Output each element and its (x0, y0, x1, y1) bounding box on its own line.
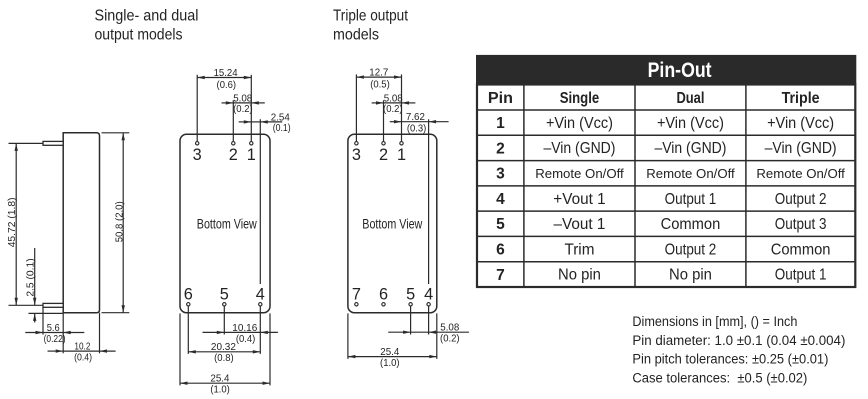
pinout table: grid (477, 85, 855, 288)
extension line: case left edge vertical (62, 313, 64, 354)
svg-text:Dimensions in [mm], () = Inch: Dimensions in [mm], () = Inch (632, 314, 797, 330)
dimension 15.24 (0.6) (197, 68, 251, 91)
svg-text:5.08: 5.08 (233, 93, 252, 104)
svg-text:Pin-Out: Pin-Out (648, 59, 712, 82)
dimension 7.62 (0.3) (390, 112, 449, 135)
dimension 50.8 (2.0) case height (114, 133, 125, 313)
extension line: case bottom right (102, 312, 130, 314)
svg-text:No pin: No pin (669, 267, 712, 284)
svg-text:2: 2 (229, 146, 238, 164)
svg-text:Remote On/Off: Remote On/Off (756, 166, 845, 181)
svg-text:2.54: 2.54 (271, 112, 290, 123)
dimension 12.7 (0.5) (356, 68, 401, 91)
svg-text:Bottom View: Bottom View (197, 216, 258, 232)
svg-text:5.08: 5.08 (384, 93, 403, 104)
label: single and dual output models (95, 8, 199, 44)
extension line: pin 5 down (223, 306, 225, 334)
svg-text:(1.0): (1.0) (210, 385, 230, 396)
dimension 5.08 (0.2) triple bottom (388, 323, 469, 345)
svg-text:–Vin (GND): –Vin (GND) (543, 140, 615, 157)
pin 5 (bottom view 1) (220, 285, 229, 306)
bottom view 2: module body (348, 134, 437, 312)
pin 1 (bottom view 1) (247, 142, 256, 164)
svg-text:1: 1 (397, 146, 406, 164)
extension line: body left down (triple) (347, 313, 349, 359)
extension line: body left down (179, 313, 181, 385)
svg-text:Trim: Trim (564, 241, 594, 258)
svg-text:(0.5): (0.5) (370, 80, 390, 91)
svg-text:25.4: 25.4 (210, 374, 229, 385)
extension line: pin 5 down (triple) (410, 306, 412, 334)
svg-text:6: 6 (496, 241, 505, 258)
side view: top pin (43, 141, 63, 145)
svg-text:(0.2): (0.2) (383, 104, 403, 115)
svg-text:1: 1 (247, 146, 256, 164)
extension line: top pin centerline (9, 142, 44, 144)
extension line: pin 3 up (triple) (355, 74, 357, 141)
svg-text:5: 5 (406, 285, 415, 303)
svg-text:1: 1 (496, 115, 505, 132)
svg-text:(0.4): (0.4) (236, 334, 256, 345)
pin 6 (bottom view 2) (379, 285, 388, 306)
svg-text:Remote On/Off: Remote On/Off (535, 166, 624, 181)
svg-text:–Vin (GND): –Vin (GND) (654, 140, 726, 157)
dimension 10.2 (0.4) case depth (48, 341, 116, 363)
pin 3 (bottom view 1) (193, 142, 202, 164)
extension line: pin 2 up (triple) (383, 100, 385, 141)
svg-text:7: 7 (496, 267, 505, 284)
svg-text:Single: Single (560, 90, 600, 107)
side view: bottom pin (43, 303, 63, 307)
dimension 2.54 (0.1) (239, 112, 291, 134)
dimension 5.6 (0.22) pin length (25, 323, 84, 345)
svg-text:12.7: 12.7 (369, 68, 388, 79)
extension line: case bottom left (29, 312, 64, 314)
pinout table: row 2 (496, 140, 836, 157)
dimension 5.08 (0.2) (222, 93, 265, 115)
svg-text:Output 1: Output 1 (775, 267, 827, 284)
svg-text:No pin: No pin (558, 267, 601, 284)
svg-text:(0.1): (0.1) (273, 123, 291, 134)
side view: module body (63, 133, 99, 313)
extension line: case top right (102, 132, 130, 134)
extension line: bottom pin centerline (9, 304, 44, 306)
svg-text:–Vin (GND): –Vin (GND) (765, 140, 837, 157)
extension line: pin 1 up (250, 75, 252, 141)
bottom view 2: label (362, 216, 423, 232)
svg-text:3: 3 (193, 146, 202, 164)
extension line: pin 6 down (187, 306, 189, 354)
label: triple output models (333, 8, 409, 44)
extension line: pin 3 up (196, 75, 198, 141)
dimension 20.32 (0.8) (188, 342, 260, 364)
pinout table: header band (476, 55, 856, 85)
extension line: pin 2 up (232, 100, 234, 141)
svg-text:7.62: 7.62 (406, 112, 425, 123)
svg-text:Triple output: Triple output (333, 8, 409, 25)
svg-text:(0.3): (0.3) (407, 124, 427, 135)
pin 6 (bottom view 1) (184, 285, 193, 306)
svg-text:5: 5 (496, 216, 505, 233)
svg-text:45.72 (1.8): 45.72 (1.8) (7, 197, 18, 247)
pin 7 (bottom view 2) (352, 285, 361, 306)
svg-text:–Vout 1: –Vout 1 (554, 216, 606, 233)
pin 4 (bottom view 1) (256, 285, 265, 306)
dimension 25.4 (1.0) width (180, 374, 270, 396)
svg-text:(0.2): (0.2) (233, 104, 253, 115)
svg-text:Bottom View: Bottom View (362, 216, 423, 232)
svg-text:2: 2 (496, 140, 505, 157)
svg-text:Pin pitch tolerances: ±0.25 (±: Pin pitch tolerances: ±0.25 (±0.01) (632, 352, 828, 368)
extension line: pin 1 up (triple) (401, 74, 403, 141)
svg-text:(0.8): (0.8) (214, 353, 234, 364)
pinout table: row 5 (496, 216, 826, 233)
svg-text:Dual: Dual (676, 90, 704, 107)
svg-text:output models: output models (95, 26, 183, 43)
svg-text:models: models (333, 26, 379, 43)
svg-text:Case tolerances: ±0.5 (±0.02): Case tolerances: ±0.5 (±0.02) (632, 370, 807, 386)
pin 3 (bottom view 2) (352, 142, 361, 164)
pin 2 (bottom view 1) (229, 142, 238, 164)
svg-text:Pin: Pin (488, 90, 513, 107)
svg-text:+Vin (Vcc): +Vin (Vcc) (767, 115, 834, 132)
notes: dimension conventions (632, 314, 845, 386)
dimension 2.5 (0.1) pin to case bottom (26, 248, 37, 323)
svg-text:25.4: 25.4 (380, 347, 399, 358)
svg-text:3: 3 (496, 166, 505, 183)
svg-text:Common: Common (661, 216, 721, 233)
pin 2 (bottom view 2) (379, 142, 388, 164)
extension line: body right down (triple) (436, 313, 438, 359)
svg-text:Common: Common (771, 241, 831, 258)
extension line: pin tip vertical (42, 307, 44, 334)
extension line: pin 4 down (259, 306, 261, 354)
svg-text:10.2: 10.2 (74, 341, 90, 352)
bottom view 1: module body (180, 134, 270, 312)
bottom view 1: label (197, 216, 258, 232)
svg-text:5: 5 (220, 285, 229, 303)
svg-text:+Vin (Vcc): +Vin (Vcc) (546, 115, 613, 132)
extension line: pin 4 down (triple) (428, 306, 430, 334)
pin 4 (bottom view 2) (424, 285, 433, 306)
svg-text:(0.22): (0.22) (44, 334, 66, 345)
svg-text:Remote On/Off: Remote On/Off (646, 166, 735, 181)
svg-text:2: 2 (379, 146, 388, 164)
extension line: pin 4 up through body (259, 119, 261, 284)
dimension 5.08 (0.2) triple top (372, 93, 416, 115)
svg-text:Pin diameter: 1.0 ±0.1 (0.04 ±: Pin diameter: 1.0 ±0.1 (0.04 ±0.004) (632, 333, 845, 349)
pinout table: row 7 (496, 267, 826, 284)
svg-text:+Vin (Vcc): +Vin (Vcc) (657, 115, 724, 132)
svg-text:3: 3 (352, 146, 361, 164)
pin 5 (bottom view 2) (406, 285, 415, 306)
svg-text:Output 3: Output 3 (775, 216, 827, 233)
svg-text:4: 4 (424, 285, 433, 303)
svg-text:10.16: 10.16 (232, 323, 257, 334)
svg-text:2.5 (0.1): 2.5 (0.1) (26, 258, 37, 296)
svg-text:7: 7 (352, 285, 361, 303)
svg-text:Single- and dual: Single- and dual (95, 8, 199, 25)
svg-text:6: 6 (379, 285, 388, 303)
svg-text:Output 1: Output 1 (665, 191, 717, 208)
extension line: pin 4 up through body (triple) (428, 119, 430, 284)
pin 1 (bottom view 2) (397, 142, 406, 164)
pinout table: row 4 (496, 191, 826, 208)
svg-text:(1.0): (1.0) (380, 358, 400, 369)
svg-text:Output 2: Output 2 (775, 191, 827, 208)
svg-text:4: 4 (256, 285, 265, 303)
dimension 45.72 (1.8) pin span (7, 143, 18, 305)
pinout table: column headers (488, 90, 820, 107)
svg-text:6: 6 (184, 285, 193, 303)
extension line: case right edge vertical (99, 313, 101, 354)
dimension 25.4 (1.0) width (triple) (348, 347, 437, 369)
svg-text:+Vout 1: +Vout 1 (553, 191, 605, 208)
svg-text:50.8 (2.0): 50.8 (2.0) (114, 201, 125, 242)
pinout table: row 6 (496, 241, 830, 258)
svg-text:Output 2: Output 2 (665, 241, 717, 258)
svg-text:15.24: 15.24 (214, 68, 238, 79)
dimension 10.16 (0.4) (203, 323, 278, 345)
pinout table: row 3 (496, 166, 845, 183)
svg-text:Triple: Triple (782, 90, 820, 107)
svg-text:5.08: 5.08 (440, 323, 459, 334)
svg-text:(0.2): (0.2) (440, 334, 460, 345)
svg-text:(0.4): (0.4) (74, 353, 92, 364)
svg-text:(0.6): (0.6) (217, 80, 237, 91)
extension line: body right down (269, 313, 271, 385)
pinout table: row 1 (496, 115, 834, 132)
svg-text:20.32: 20.32 (211, 342, 236, 353)
svg-text:5.6: 5.6 (47, 323, 60, 334)
svg-text:4: 4 (496, 191, 505, 208)
